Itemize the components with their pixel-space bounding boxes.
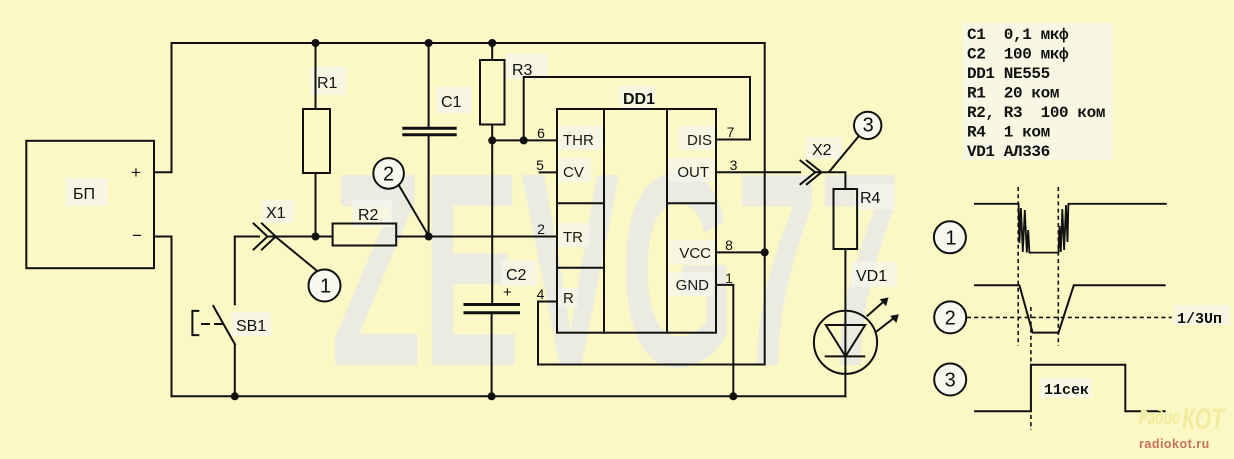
waveform trace 1 [974,204,1167,253]
svg-text:DD1 NE555: DD1 NE555 [967,65,1050,83]
LED VD1 [814,311,877,374]
svg-text:КОТ: КОТ [1182,403,1226,436]
svg-text:X2: X2 [812,142,832,159]
node 2 pointer [399,186,428,235]
svg-text:VCC: VCC [679,245,711,262]
svg-text:C1: C1 [441,94,462,111]
svg-text:3: 3 [730,157,738,173]
chip pin numbers [536,124,738,302]
svg-text:radiokot.ru: radiokot.ru [1139,437,1210,451]
junction VCC pin8 [761,248,769,256]
wire: X1 to TR line [268,236,333,238]
dashed guides [967,187,1172,430]
resistor R1 [315,43,317,109]
waveform 1 circle [934,221,966,253]
wire: OUT pin3 to X2 [716,171,800,173]
svg-text:VD1: VD1 [856,268,887,285]
component list [967,26,1105,161]
svg-text:CV: CV [563,164,584,181]
svg-text:R2: R2 [358,207,379,224]
svg-text:DD1: DD1 [623,91,655,108]
svg-text:R4 1 ком: R4 1 ком [967,124,1050,142]
resistor R3 [491,43,493,60]
svg-text:R2, R3 100 ком: R2, R3 100 ком [967,104,1105,122]
junction R1 bottom / TR net [312,233,320,241]
svg-text:2: 2 [537,221,545,237]
junction C1 top rail [425,39,433,47]
junction R3 top rail [488,39,496,47]
svg-text:X1: X1 [266,205,286,222]
svg-text:3: 3 [945,370,956,392]
svg-text:VD1 АЛ336: VD1 АЛ336 [967,143,1050,161]
svg-text:1: 1 [320,276,331,298]
svg-text:−: − [132,226,142,245]
svg-text:4: 4 [537,286,545,302]
wire: VCC pin8 stub [716,251,765,253]
svg-text:C1 0,1 мкф: C1 0,1 мкф [967,26,1069,44]
junction R3 bottom / THR node [488,136,496,144]
connector X1 [235,236,259,238]
svg-text:SB1: SB1 [236,318,266,335]
svg-text:R3: R3 [512,62,533,79]
svg-text:1/3Uп: 1/3Uп [1177,311,1222,328]
chip DD1 outline [557,109,716,333]
svg-text:R: R [563,290,574,307]
svg-text:OUT: OUT [677,164,709,181]
svg-text:2: 2 [945,307,956,329]
svg-text:C2: C2 [506,267,527,284]
connector X2 [801,161,816,185]
switch SB1 [234,237,236,305]
junction THR/DIS loop [520,136,528,144]
svg-text:11сек: 11сек [1044,382,1089,399]
chip pin names [563,132,712,307]
svg-text:TR: TR [563,229,583,246]
svg-text:БП: БП [73,186,95,203]
wire: BP minus terminal down to bottom rail [154,237,172,397]
svg-text:1: 1 [725,270,733,286]
waveform annotations [1044,311,1222,399]
svg-text:R4: R4 [860,190,881,207]
svg-text:8: 8 [725,237,733,253]
svg-text:THR: THR [563,132,594,149]
wire: bottom rail [172,395,846,397]
wire: right rail down from top to VCC/R path [538,43,765,365]
node circle numbers [320,115,957,392]
junction GND pin1 bottom rail [729,392,737,400]
svg-text:+: + [503,284,512,301]
waveform 3 circle [934,364,966,396]
capacitor C1 [428,43,430,127]
svg-text:R1 20 ком: R1 20 ком [967,85,1059,103]
wire: CV pin5 stub [540,171,557,173]
svg-text:GND: GND [676,277,710,294]
svg-text:6: 6 [537,125,545,141]
waveform trace 3 [974,365,1166,412]
waveform 2 circle [934,301,966,333]
wire: BP plus terminal to top rail [154,43,172,172]
waveform trace 2 [974,285,1166,332]
svg-text:1: 1 [945,227,956,249]
junction SB1 bottom rail [231,392,239,400]
junction R2/C1 on TR net [425,233,433,241]
wire: R3 bottom to THR pin6 [492,139,557,141]
svg-text:C2 100 мкф: C2 100 мкф [967,46,1069,64]
svg-text:7: 7 [727,124,735,140]
wire: DIS pin7 loop to THR node [524,77,750,140]
power supply box BP [26,141,154,268]
svg-text:ZEVG77: ZEVG77 [331,116,901,424]
node 3 pointer [830,135,860,172]
svg-text:3: 3 [863,115,874,137]
junction R1 top rail [312,39,320,47]
resistor R2 [333,224,397,246]
svg-text:+: + [131,163,141,182]
svg-text:DIS: DIS [687,132,712,149]
junction C2 bottom rail [488,392,496,400]
svg-text:Радио: Радио [1139,407,1180,429]
resistor R4 [834,189,858,249]
node 1 pointer [277,238,317,271]
wire: top rail [172,42,765,44]
capacitor C2 [465,303,519,306]
svg-text:2: 2 [383,164,394,186]
svg-text:R1: R1 [317,75,338,92]
wire: GND pin1 to bottom rail [716,285,733,396]
svg-text:5: 5 [536,157,544,173]
